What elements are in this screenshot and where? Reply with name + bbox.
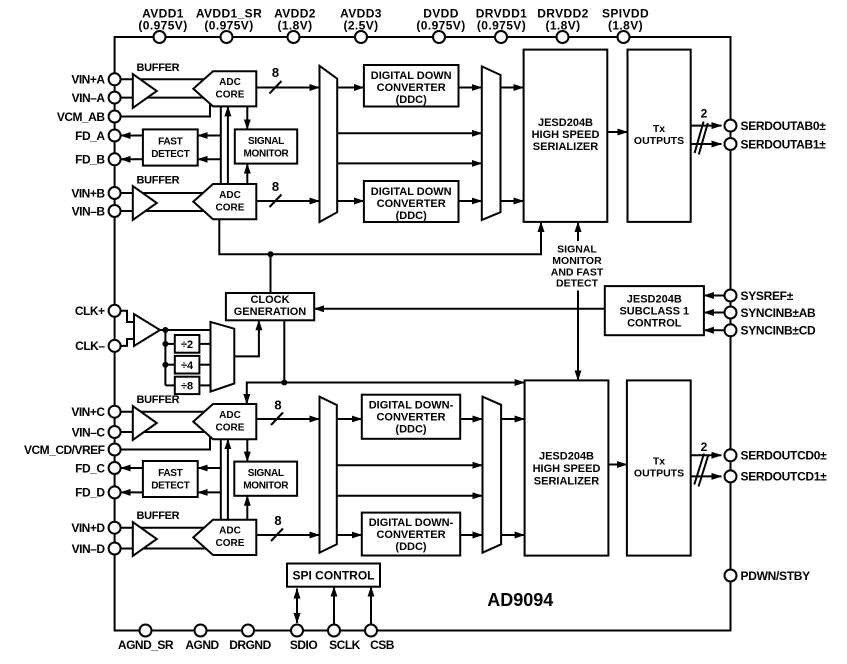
svg-text:ADC: ADC — [219, 526, 241, 537]
svg-text:PDWN/STBY: PDWN/STBY — [741, 569, 811, 583]
wire SYNCINB CD to subclass control — [704, 329, 725, 331]
svg-text:DIGITAL DOWN: DIGITAL DOWN — [371, 70, 452, 82]
svg-text:AGND_SR: AGND_SR — [118, 638, 174, 652]
svg-text:VCM_AB: VCM_AB — [57, 110, 106, 124]
pin VIN-B — [109, 205, 121, 217]
svg-text:2: 2 — [701, 107, 708, 121]
wire ADC B output bus — [256, 200, 319, 202]
pin SYSREF — [725, 290, 737, 302]
wire FD_C output to pin — [121, 467, 143, 469]
wire JESD AB to Tx — [607, 131, 627, 133]
wire fast-detect tap from ADC cores A/B — [220, 106, 222, 184]
wire CLK+ input jog — [121, 311, 134, 322]
mux CD input crossbar — [320, 397, 337, 553]
svg-text:(1.8V): (1.8V) — [608, 19, 643, 33]
wire FD_B output to pin — [121, 158, 143, 160]
ADC core D — [193, 520, 256, 555]
wire signal monitor input from core C — [246, 439, 248, 461]
svg-text:SYSREF±: SYSREF± — [741, 289, 794, 303]
svg-text:BUFFER: BUFFER — [137, 175, 180, 187]
svg-text:FAST: FAST — [158, 137, 183, 148]
pin VIN+B — [109, 187, 121, 199]
node div4 tap junction — [162, 362, 168, 368]
svg-text:VIN–A: VIN–A — [72, 91, 106, 105]
wire bypass AB 1 — [337, 132, 482, 134]
node div2 tap junction — [162, 341, 168, 347]
wire VIN-C to ADC core C — [121, 431, 206, 433]
buffer D — [133, 522, 157, 556]
svg-text:VCM_CD/VREF: VCM_CD/VREF — [24, 443, 105, 457]
divider box div2 — [175, 335, 200, 353]
DDC box C — [362, 395, 460, 439]
wire mux to JESD CD lane 2 — [501, 534, 524, 536]
pin FD_B — [109, 153, 121, 165]
pin CLK+ — [109, 305, 121, 317]
svg-text:SIGNAL: SIGNAL — [248, 468, 284, 479]
svg-text:(0.975V): (0.975V) — [138, 19, 187, 33]
svg-text:÷2: ÷2 — [181, 339, 193, 351]
svg-text:CLOCK: CLOCK — [250, 294, 289, 306]
svg-text:(1.8V): (1.8V) — [277, 19, 312, 33]
pin CSB — [365, 625, 377, 637]
wire DDC A to output mux — [459, 87, 482, 89]
svg-text:HIGH SPEED: HIGH SPEED — [532, 129, 600, 141]
wire JESD CD to Tx — [608, 464, 627, 466]
pin VCM_CD/VREF — [109, 444, 121, 456]
wire signal monitor and fast detect to JESD AB — [577, 222, 579, 241]
signal monitor box AB — [235, 129, 297, 163]
svg-text:SPI CONTROL: SPI CONTROL — [292, 569, 374, 583]
svg-text:MONITOR: MONITOR — [243, 481, 289, 492]
svg-text:CONVERTER: CONVERTER — [377, 82, 446, 94]
wire CLK- input jog — [121, 339, 134, 346]
svg-text:÷4: ÷4 — [181, 360, 194, 372]
wire clock from core D up to core C — [227, 439, 229, 520]
svg-text:SCLK: SCLK — [329, 638, 361, 652]
wire Tx to SERDOUTAB0 — [691, 125, 722, 127]
pin SERDOUTCD1 — [725, 470, 737, 482]
svg-text:VIN+D: VIN+D — [71, 521, 105, 535]
pin AVDD2 — [288, 31, 300, 43]
buffer A — [133, 74, 157, 108]
node clock rail AB junction — [268, 251, 274, 257]
svg-text:2: 2 — [701, 440, 708, 454]
svg-text:CORE: CORE — [216, 538, 245, 549]
pin AVDD3 — [355, 31, 367, 43]
svg-text:SERDOUTAB1±: SERDOUTAB1± — [741, 137, 827, 151]
wire mux to JESD AB lane 1 — [501, 87, 524, 89]
wire ADC C output bus — [256, 418, 319, 420]
svg-text:SERIALIZER: SERIALIZER — [534, 476, 599, 488]
svg-text:(DDC): (DDC) — [395, 424, 426, 436]
wire VCM_AB to ADC core A — [121, 104, 210, 117]
wire signal monitor and fast detect to JESD CD — [577, 291, 579, 381]
ADC core C — [193, 404, 256, 439]
svg-text:FD_D: FD_D — [75, 486, 105, 500]
svg-text:ADC: ADC — [219, 190, 241, 201]
bus slash B — [270, 195, 282, 208]
wire Tx to SERDOUTCD0 — [691, 454, 722, 456]
pin VIN+A — [109, 73, 121, 85]
wire tap to div4 — [165, 364, 174, 366]
svg-text:CONVERTER: CONVERTER — [376, 412, 445, 424]
svg-text:8: 8 — [274, 513, 281, 528]
svg-text:OUTPUTS: OUTPUTS — [634, 468, 684, 480]
pin FD_D — [109, 486, 121, 498]
SPI control box — [287, 564, 380, 587]
svg-text:GENERATION: GENERATION — [234, 306, 307, 318]
pin DVDD — [433, 31, 445, 43]
bus slash pair CD — [694, 454, 704, 485]
pin SERDOUTAB1 — [725, 138, 737, 150]
svg-text:CLK–: CLK– — [75, 339, 105, 353]
svg-text:8: 8 — [272, 179, 279, 194]
svg-text:SYNCINB±AB: SYNCINB±AB — [741, 306, 817, 320]
svg-text:CONVERTER: CONVERTER — [377, 198, 446, 210]
svg-text:VIN+A: VIN+A — [71, 73, 105, 87]
wire tap to div2 — [165, 343, 174, 345]
svg-text:SIGNAL: SIGNAL — [557, 243, 597, 255]
svg-text:FD_A: FD_A — [75, 129, 105, 143]
svg-text:ADC: ADC — [219, 77, 241, 88]
pin SERDOUTCD0 — [725, 449, 737, 461]
wire mux to DDC D — [337, 534, 362, 536]
svg-text:÷8: ÷8 — [181, 381, 193, 393]
pin VIN-A — [109, 92, 121, 104]
wire tap to div8 — [165, 384, 174, 386]
svg-text:Tx: Tx — [653, 123, 665, 135]
wire fast detect A input — [198, 135, 221, 137]
wire mux to DDC C — [337, 418, 362, 420]
svg-text:SERIALIZER: SERIALIZER — [533, 141, 598, 153]
svg-text:FD_B: FD_B — [75, 153, 105, 167]
wire VIN+D to ADC core D — [121, 527, 208, 529]
wire VCM_CD/VREF to ADC core C — [121, 436, 210, 449]
DDC box B — [364, 181, 459, 222]
svg-text:VIN–B: VIN–B — [72, 204, 106, 218]
wire VIN+C to ADC core C — [121, 411, 208, 413]
wire clock from core B up to core A — [227, 106, 229, 184]
JESD204B serializer box AB — [524, 50, 608, 222]
svg-text:DRGND: DRGND — [229, 638, 271, 652]
fast detect box CD — [143, 461, 198, 497]
wire SYNCINB AB to subclass control — [704, 312, 725, 314]
wire DDC B to output mux — [459, 200, 482, 202]
svg-text:DIGITAL DOWN-: DIGITAL DOWN- — [369, 517, 454, 529]
svg-text:ADC: ADC — [219, 410, 241, 421]
wire bypass AB 2 — [337, 162, 482, 164]
JESD204B serializer box CD — [525, 380, 609, 555]
pin VIN-D — [109, 543, 121, 555]
svg-text:(0.975V): (0.975V) — [477, 19, 526, 33]
svg-text:(2.5V): (2.5V) — [343, 19, 378, 33]
wire div4 output — [199, 364, 210, 366]
wire DDC D to output mux — [460, 534, 482, 536]
wire clock rail AB: clockgen top to ADC core B and JESD AB — [219, 219, 270, 254]
svg-text:DETECT: DETECT — [151, 481, 189, 492]
svg-text:MONITOR: MONITOR — [552, 255, 602, 267]
pin DRGND — [242, 625, 254, 637]
pin DRVDD1 — [495, 31, 507, 43]
svg-text:VIN+C: VIN+C — [71, 405, 105, 419]
DDC box A — [364, 65, 459, 107]
svg-text:(0.975V): (0.975V) — [204, 19, 253, 33]
ADC core A — [193, 71, 256, 106]
svg-text:DETECT: DETECT — [151, 149, 189, 160]
chip outer border — [115, 37, 731, 631]
mux AB input crossbar — [320, 66, 338, 222]
pin VIN-C — [109, 426, 121, 438]
svg-text:MONITOR: MONITOR — [244, 149, 290, 160]
wire VIN+B to ADC core B — [121, 192, 208, 194]
pin AVDD1 — [154, 31, 166, 43]
wire Tx to SERDOUTCD1 — [691, 475, 722, 477]
svg-text:(DDC): (DDC) — [395, 541, 426, 553]
svg-text:DIGITAL DOWN-: DIGITAL DOWN- — [369, 400, 454, 412]
wire signal monitor input from core A — [246, 106, 248, 129]
svg-text:SERDOUTCD0±: SERDOUTCD0± — [741, 449, 828, 463]
Tx outputs box AB — [628, 50, 691, 222]
svg-text:BUFFER: BUFFER — [137, 510, 180, 522]
wire VIN+A to ADC core A — [121, 78, 208, 80]
wire mux to JESD AB lane 2 — [501, 200, 524, 202]
pin VIN+C — [109, 406, 121, 418]
wire div2 output — [199, 343, 210, 345]
svg-text:(1.8V): (1.8V) — [545, 19, 580, 33]
wire VIN-D to ADC core D — [121, 548, 206, 550]
svg-text:CLK+: CLK+ — [75, 304, 105, 318]
wire subclass control to clock generation — [314, 308, 605, 310]
svg-text:JESD204B: JESD204B — [539, 451, 594, 463]
wire signal monitor input from core B — [246, 164, 248, 184]
svg-text:(DDC): (DDC) — [396, 94, 427, 106]
wire mux to JESD CD lane 1 — [501, 418, 524, 420]
svg-text:SERDOUTCD1±: SERDOUTCD1± — [741, 470, 828, 484]
svg-text:FAST: FAST — [158, 468, 183, 479]
pin VCM_AB — [109, 111, 121, 123]
wire fast detect C input — [198, 467, 221, 469]
svg-text:SDIO: SDIO — [290, 638, 318, 652]
mux AB output crossbar — [482, 66, 501, 220]
pin SDIO — [291, 625, 303, 637]
divider box div8 — [175, 377, 200, 394]
pin SPIVDD — [618, 31, 630, 43]
DDC box D — [362, 513, 460, 556]
buffer B — [133, 186, 157, 220]
pin SYNCINB CD — [725, 324, 737, 336]
svg-text:VIN–C: VIN–C — [72, 425, 106, 439]
pin DRVDD2 — [557, 31, 569, 43]
pin AVDD1_SR — [221, 31, 233, 43]
JESD204B subclass 1 control box — [605, 286, 704, 335]
wire SCLK to SPI control — [333, 587, 335, 625]
wire mux to DDC A — [337, 87, 364, 89]
wire bypass CD 1 — [337, 464, 483, 466]
wire DDC C to output mux — [460, 418, 482, 420]
svg-text:CONTROL: CONTROL — [627, 318, 682, 330]
svg-text:CORE: CORE — [216, 202, 245, 213]
wire bypass CD 2 — [337, 495, 483, 497]
node clock rail CD junction — [281, 380, 287, 386]
wire divider feed vertical — [164, 330, 166, 385]
pin SERDOUTAB0 — [725, 120, 737, 132]
pin AGND — [195, 625, 207, 637]
svg-text:BUFFER: BUFFER — [137, 62, 180, 74]
fast detect box AB — [143, 129, 198, 165]
wire SDIO to SPI control (bidirectional) — [296, 589, 298, 624]
svg-text:HIGH SPEED: HIGH SPEED — [533, 463, 601, 475]
pin CLK- — [109, 340, 121, 352]
buffer C — [133, 406, 157, 440]
pin PDWN/STBY — [725, 570, 737, 582]
bus slash C — [271, 413, 283, 426]
wire mux to DDC B — [337, 200, 364, 202]
clock generation box — [226, 293, 314, 320]
svg-text:CSB: CSB — [370, 638, 395, 652]
wire clock rail CD: clockgen bottom to ADC core C and JESD CD — [283, 320, 285, 382]
svg-text:CONVERTER: CONVERTER — [376, 529, 445, 541]
clock input buffer — [134, 314, 160, 346]
clock divider mux — [211, 322, 235, 392]
wire divider mux to clock generation — [234, 320, 259, 356]
wire Tx to SERDOUTAB1 — [691, 143, 722, 145]
svg-text:(DDC): (DDC) — [396, 210, 427, 222]
pin VIN+D — [109, 522, 121, 534]
pin SYNCINB AB — [725, 307, 737, 319]
wire fast detect B input — [198, 158, 221, 160]
mux CD output crossbar — [483, 397, 502, 553]
svg-text:JESD204B: JESD204B — [538, 117, 593, 129]
svg-text:Tx: Tx — [653, 456, 665, 468]
wire div8 output — [199, 384, 210, 386]
svg-text:OUTPUTS: OUTPUTS — [634, 135, 684, 147]
pin AGND_SR — [140, 625, 152, 637]
svg-text:SYNCINB±CD: SYNCINB±CD — [741, 324, 817, 338]
wire ADC A output bus — [256, 87, 319, 89]
wire VIN-A to ADC core A — [121, 97, 206, 99]
svg-text:DETECT: DETECT — [556, 277, 599, 289]
svg-text:VIN+B: VIN+B — [71, 186, 105, 200]
wire fast detect D input — [198, 491, 221, 493]
svg-text:SERDOUTAB0±: SERDOUTAB0± — [741, 119, 827, 133]
svg-text:FD_C: FD_C — [75, 461, 105, 475]
pin SCLK — [328, 625, 340, 637]
svg-text:SUBCLASS 1: SUBCLASS 1 — [619, 306, 689, 318]
wire FD_D output to pin — [121, 491, 143, 493]
wire CSB to SPI control — [370, 587, 372, 625]
bus slash A — [270, 81, 282, 94]
svg-text:VIN–D: VIN–D — [72, 542, 106, 556]
wire FD_A output to pin — [121, 135, 143, 137]
wire ADC D output bus — [256, 534, 319, 536]
svg-text:AGND: AGND — [185, 638, 219, 652]
pin FD_C — [109, 462, 121, 474]
svg-text:CORE: CORE — [216, 90, 245, 101]
svg-text:DIGITAL DOWN: DIGITAL DOWN — [371, 186, 452, 198]
wire signal monitor input from core D — [246, 496, 248, 520]
svg-text:AD9094: AD9094 — [487, 590, 553, 610]
svg-text:SIGNAL: SIGNAL — [248, 136, 284, 147]
svg-text:CORE: CORE — [216, 422, 245, 433]
svg-text:8: 8 — [274, 398, 281, 413]
bus slash pair AB — [695, 122, 704, 154]
bus slash D — [271, 529, 283, 542]
svg-text:BUFFER: BUFFER — [137, 394, 180, 406]
pin FD_A — [109, 130, 121, 142]
wire SYSREF to subclass control — [704, 295, 725, 297]
wire VIN-B to ADC core B — [121, 210, 206, 212]
svg-text:8: 8 — [272, 65, 279, 80]
divider box div4 — [175, 356, 200, 374]
Tx outputs box CD — [627, 380, 691, 555]
svg-text:JESD204B: JESD204B — [627, 294, 682, 306]
signal monitor box CD — [234, 462, 297, 496]
wire fast-detect tap from ADC cores C/D — [220, 439, 222, 520]
ADC core B — [193, 184, 256, 219]
node clock buffer junction — [162, 327, 168, 333]
wire clock buffer output direct path — [160, 329, 211, 331]
svg-text:(0.975V): (0.975V) — [416, 19, 465, 33]
